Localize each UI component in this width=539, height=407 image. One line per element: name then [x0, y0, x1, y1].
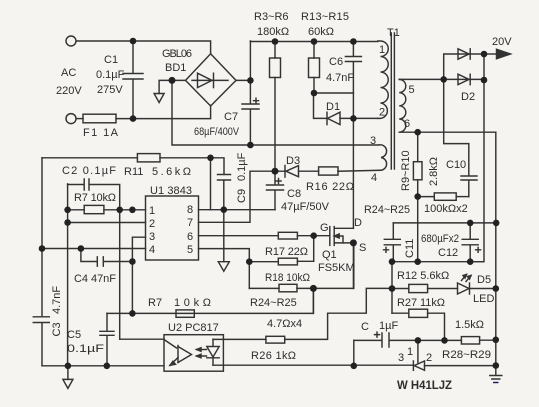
svg-text:8: 8: [187, 204, 193, 216]
svg-text:6: 6: [187, 231, 193, 243]
svg-text:C8: C8: [287, 188, 301, 200]
svg-text:R27 11kΩ: R27 11kΩ: [397, 297, 445, 309]
svg-text:D1: D1: [326, 101, 340, 113]
svg-text:R24~R25: R24~R25: [250, 297, 297, 309]
svg-text:W H41LJZ: W H41LJZ: [397, 378, 452, 392]
svg-text:C4 47nF: C4 47nF: [74, 273, 116, 285]
svg-text:R18 10kΩ: R18 10kΩ: [265, 272, 310, 284]
svg-text:5: 5: [409, 84, 415, 96]
svg-text:C3: C3: [51, 322, 63, 336]
svg-text:C: C: [361, 321, 369, 333]
svg-text:4.7nF: 4.7nF: [326, 72, 354, 84]
svg-text:C10: C10: [446, 159, 466, 171]
svg-text:5: 5: [187, 244, 193, 256]
svg-text:68µF/400V: 68µF/400V: [194, 126, 240, 138]
svg-text:R11: R11: [124, 166, 143, 178]
svg-text:0.1µF: 0.1µF: [96, 69, 125, 81]
svg-text:R16 22Ω: R16 22Ω: [306, 181, 354, 193]
svg-text:0.1µF: 0.1µF: [67, 343, 104, 355]
svg-text:S: S: [359, 242, 366, 254]
svg-text:2.8kΩ: 2.8kΩ: [428, 157, 440, 186]
svg-text:R9~R10: R9~R10: [400, 150, 412, 191]
svg-text:1.5kΩ: 1.5kΩ: [455, 319, 484, 331]
svg-text:4: 4: [149, 244, 155, 256]
svg-text:R3~R6: R3~R6: [254, 11, 289, 23]
svg-text:F1 1A: F1 1A: [83, 127, 119, 139]
svg-text:R24~R25: R24~R25: [364, 204, 410, 216]
svg-text:T1: T1: [387, 27, 400, 39]
svg-text:D3: D3: [286, 155, 300, 167]
svg-text:220V: 220V: [56, 85, 82, 97]
svg-text:R7 10kΩ: R7 10kΩ: [74, 192, 116, 204]
svg-text:100kΩx2: 100kΩx2: [424, 203, 468, 215]
svg-text:5.6kΩ: 5.6kΩ: [152, 166, 191, 178]
svg-text:LED: LED: [473, 293, 494, 305]
svg-text:0.1µF: 0.1µF: [236, 152, 248, 181]
svg-text:2: 2: [149, 218, 155, 230]
svg-text:680µFx2: 680µFx2: [421, 233, 459, 245]
svg-text:D5: D5: [477, 274, 491, 286]
svg-text:C12: C12: [438, 247, 458, 259]
svg-text:GBL06: GBL06: [162, 48, 192, 60]
svg-text:R7: R7: [148, 297, 162, 309]
svg-text:D: D: [354, 217, 362, 229]
svg-text:60kΩ: 60kΩ: [308, 26, 334, 38]
svg-text:R28~R29: R28~R29: [442, 349, 491, 361]
svg-text:R17 22Ω: R17 22Ω: [265, 246, 308, 258]
svg-text:AC: AC: [61, 67, 76, 79]
svg-text:2: 2: [379, 107, 385, 119]
svg-text:D2: D2: [461, 91, 475, 103]
svg-text:C7: C7: [224, 111, 238, 123]
svg-text:BD1: BD1: [165, 62, 186, 74]
svg-text:1: 1: [379, 44, 385, 56]
svg-text:C9: C9: [236, 189, 248, 203]
svg-text:47µF/50V: 47µF/50V: [281, 201, 330, 213]
svg-text:2: 2: [426, 352, 432, 364]
svg-text:20V: 20V: [492, 36, 512, 48]
svg-text:U2 PC817: U2 PC817: [168, 322, 219, 334]
svg-text:4.7Ωx4: 4.7Ωx4: [267, 318, 302, 330]
svg-text:3: 3: [149, 231, 155, 243]
svg-text:G: G: [320, 222, 329, 234]
svg-text:R13~R15: R13~R15: [301, 11, 349, 23]
svg-text:7: 7: [187, 217, 193, 229]
svg-text:C11: C11: [404, 239, 416, 258]
svg-text:4.7nF: 4.7nF: [51, 286, 63, 314]
svg-text:C1: C1: [104, 54, 118, 66]
svg-text:1: 1: [149, 205, 155, 217]
svg-text:3: 3: [370, 135, 376, 147]
svg-text:1: 1: [407, 346, 413, 358]
svg-text:1µF: 1µF: [379, 320, 398, 332]
svg-text:275V: 275V: [97, 84, 123, 96]
svg-text:U1 3843: U1 3843: [150, 185, 192, 197]
svg-text:FS5KM: FS5KM: [318, 262, 355, 274]
svg-text:3: 3: [398, 352, 404, 364]
svg-text:Q1: Q1: [322, 249, 337, 261]
svg-text:R12 5.6kΩ: R12 5.6kΩ: [397, 270, 449, 282]
svg-text:R26 1kΩ: R26 1kΩ: [251, 350, 296, 362]
svg-text:C5: C5: [67, 329, 81, 341]
svg-text:4: 4: [371, 172, 377, 184]
svg-text:6: 6: [404, 118, 410, 130]
svg-text:C6: C6: [329, 56, 343, 68]
svg-text:180kΩ: 180kΩ: [257, 26, 289, 38]
